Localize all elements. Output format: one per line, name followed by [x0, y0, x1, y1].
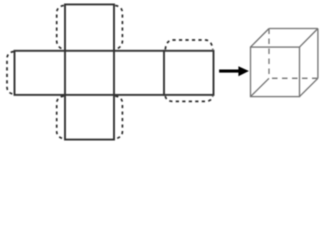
bottom square	[65, 95, 114, 140]
cube top-left edge	[251, 29, 270, 48]
cube back top edge	[269, 28, 318, 30]
flap right of top square	[115, 5, 122, 49]
cube bottom-right edge	[300, 78, 318, 96]
cube bottom-left edge	[251, 78, 270, 96]
flap left of top square	[57, 5, 64, 49]
fold line V4	[163, 51, 165, 95]
flap below square 4	[165, 96, 213, 101]
cube back right edge	[317, 29, 319, 79]
top square	[65, 4, 114, 50]
flap left of cell 1	[7, 52, 14, 95]
flap right of bottom square	[115, 96, 122, 139]
flap above square 4	[165, 40, 213, 50]
cube top-right edge	[300, 29, 318, 48]
fold line V2	[64, 51, 66, 95]
cube hidden back bottom edge	[269, 77, 318, 79]
fold line V3	[113, 51, 115, 95]
net strip outline	[15, 51, 214, 95]
cube hidden back-left vertical	[268, 29, 270, 79]
cube front face	[251, 47, 300, 97]
arrow	[219, 66, 249, 76]
flap left of bottom square	[57, 96, 64, 139]
cube	[251, 29, 318, 97]
